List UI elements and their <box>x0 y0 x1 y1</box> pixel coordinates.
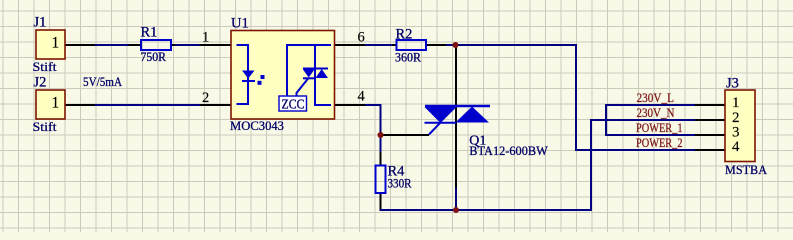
svg-text:230V_L: 230V_L <box>637 90 675 105</box>
svg-text:MSTBA: MSTBA <box>725 162 768 177</box>
svg-text:BTA12-600BW: BTA12-600BW <box>469 143 548 158</box>
svg-text:J1: J1 <box>34 15 47 31</box>
svg-text:J2: J2 <box>34 75 47 91</box>
svg-text:ZCC: ZCC <box>282 97 305 112</box>
svg-text:750R: 750R <box>141 49 167 64</box>
svg-text:230V_N: 230V_N <box>637 105 676 120</box>
svg-text:Stift: Stift <box>33 119 57 134</box>
svg-text:4: 4 <box>358 89 366 105</box>
svg-text:6: 6 <box>358 30 365 46</box>
svg-text:U1: U1 <box>231 16 249 32</box>
svg-text:330R: 330R <box>388 176 412 191</box>
svg-text:2: 2 <box>202 90 209 106</box>
svg-text:4: 4 <box>732 139 740 155</box>
svg-text:Stift: Stift <box>33 59 57 74</box>
svg-text:R1: R1 <box>141 25 158 41</box>
svg-text:POWER_2: POWER_2 <box>636 135 683 150</box>
svg-text:MOC3043: MOC3043 <box>230 118 284 133</box>
svg-text:1: 1 <box>52 35 60 52</box>
svg-text:POWER_1: POWER_1 <box>636 120 683 135</box>
svg-text:5V/5mA: 5V/5mA <box>83 74 123 89</box>
svg-text:J3: J3 <box>726 76 739 92</box>
svg-text:1: 1 <box>202 30 209 46</box>
svg-text:360R: 360R <box>395 50 421 65</box>
svg-text:R2: R2 <box>396 27 413 43</box>
svg-text:1: 1 <box>52 95 60 112</box>
svg-text:1: 1 <box>732 95 740 111</box>
